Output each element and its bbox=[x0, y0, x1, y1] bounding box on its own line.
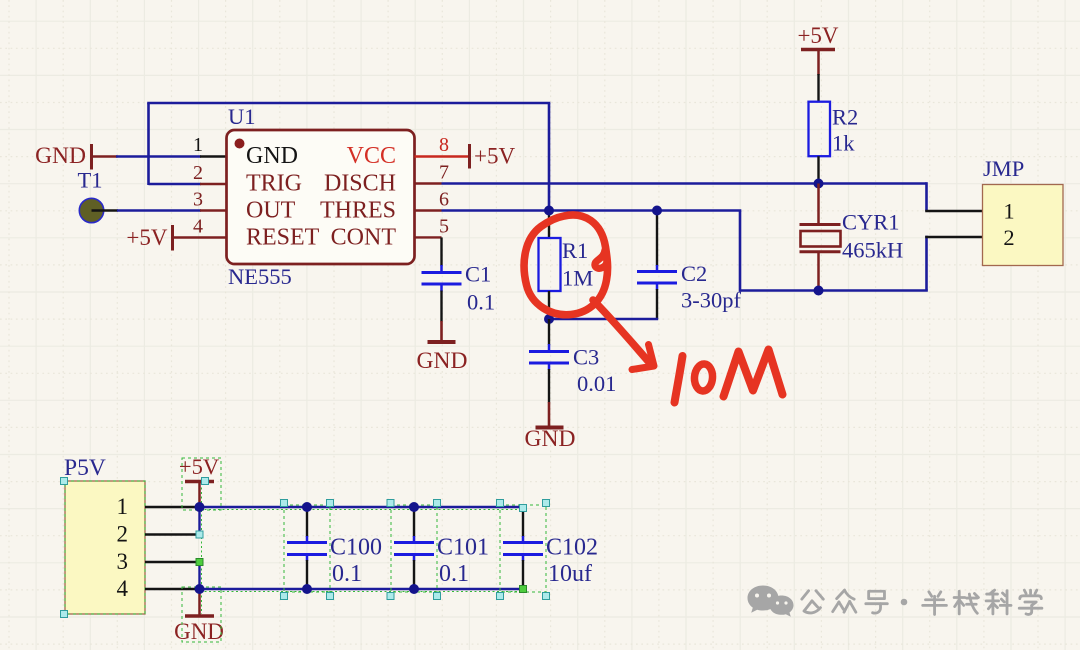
svg-text:THRES: THRES bbox=[320, 198, 396, 224]
svg-text:NE555: NE555 bbox=[228, 264, 292, 289]
svg-text:4: 4 bbox=[193, 216, 203, 238]
svg-text:+5V: +5V bbox=[126, 225, 167, 250]
svg-text:C101: C101 bbox=[437, 535, 489, 561]
svg-text:C2: C2 bbox=[681, 261, 707, 286]
svg-text:0.1: 0.1 bbox=[467, 290, 495, 315]
svg-text:CONT: CONT bbox=[331, 225, 397, 251]
svg-text:C100: C100 bbox=[330, 535, 382, 561]
svg-text:C102: C102 bbox=[546, 535, 598, 561]
svg-text:2: 2 bbox=[193, 162, 203, 184]
svg-text:6: 6 bbox=[439, 189, 449, 211]
svg-text:CYR1: CYR1 bbox=[842, 210, 900, 235]
svg-text:P5V: P5V bbox=[64, 455, 106, 481]
svg-text:5: 5 bbox=[439, 216, 449, 238]
svg-text:+5V: +5V bbox=[797, 23, 838, 48]
svg-text:8: 8 bbox=[439, 134, 449, 156]
svg-text:GND: GND bbox=[35, 143, 86, 169]
svg-text:U1: U1 bbox=[228, 104, 256, 129]
svg-text:T1: T1 bbox=[78, 168, 103, 193]
svg-text:DISCH: DISCH bbox=[324, 171, 396, 197]
svg-text:GND: GND bbox=[525, 426, 576, 452]
svg-text:R1: R1 bbox=[562, 238, 588, 263]
svg-text:VCC: VCC bbox=[347, 143, 396, 169]
svg-text:0.1: 0.1 bbox=[439, 561, 469, 587]
svg-text:7: 7 bbox=[439, 162, 449, 184]
svg-text:3: 3 bbox=[193, 189, 203, 211]
svg-text:0.1: 0.1 bbox=[332, 561, 362, 587]
svg-text:3: 3 bbox=[117, 549, 129, 574]
svg-text:JMP: JMP bbox=[983, 156, 1024, 181]
svg-text:C1: C1 bbox=[465, 262, 491, 287]
svg-text:1M: 1M bbox=[562, 266, 593, 291]
svg-text:OUT: OUT bbox=[246, 198, 296, 224]
svg-text:TRIG: TRIG bbox=[246, 171, 302, 197]
svg-text:0.01: 0.01 bbox=[577, 371, 616, 396]
svg-text:+5V: +5V bbox=[474, 144, 515, 169]
svg-text:GND: GND bbox=[246, 143, 298, 169]
svg-text:10uf: 10uf bbox=[548, 561, 592, 587]
svg-text:R2: R2 bbox=[832, 105, 858, 130]
svg-text:3-30pf: 3-30pf bbox=[681, 288, 741, 313]
svg-text:C3: C3 bbox=[573, 345, 599, 370]
svg-text:GND: GND bbox=[417, 348, 468, 374]
svg-text:1: 1 bbox=[193, 134, 203, 156]
svg-text:1: 1 bbox=[1003, 199, 1014, 224]
svg-text:1: 1 bbox=[117, 494, 129, 519]
svg-text:RESET: RESET bbox=[246, 225, 320, 251]
svg-text:2: 2 bbox=[117, 522, 129, 547]
svg-text:465kH: 465kH bbox=[842, 238, 903, 263]
svg-text:4: 4 bbox=[117, 576, 129, 601]
svg-text:1k: 1k bbox=[832, 131, 855, 156]
svg-text:2: 2 bbox=[1003, 225, 1014, 250]
